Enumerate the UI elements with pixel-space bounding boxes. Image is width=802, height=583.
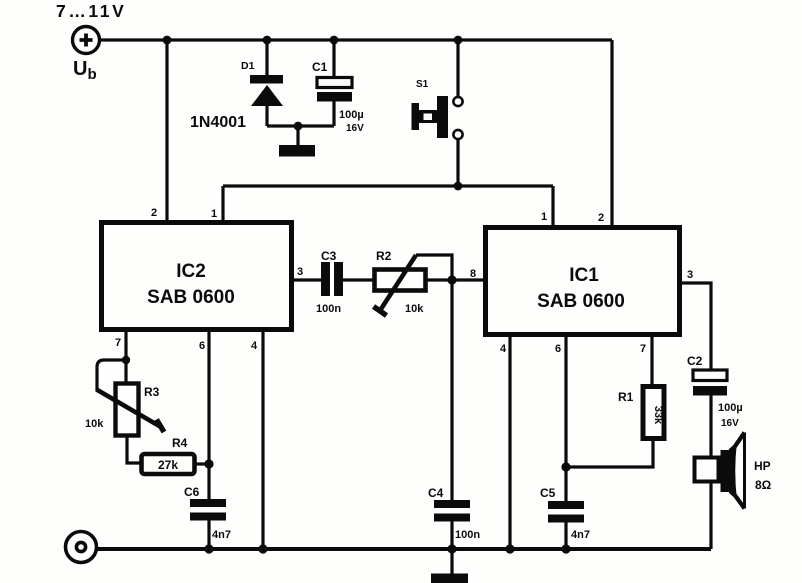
switch S1 pushbutton — [412, 96, 463, 139]
svg-text:Ub: Ub — [73, 58, 97, 83]
junction rail C5 — [561, 544, 570, 553]
junction rail C4 — [447, 544, 456, 553]
capacitor C1 electrolytic — [317, 78, 352, 102]
wire C5 to bottom rail — [564, 521, 567, 549]
capacitor C3 — [321, 262, 343, 296]
junction rail C6 — [204, 544, 213, 553]
svg-text:16V: 16V — [346, 123, 364, 134]
wire C6 to bottom rail — [207, 520, 210, 549]
svg-text:4n7: 4n7 — [571, 529, 590, 541]
junction R4 pin6 — [204, 459, 213, 468]
wire C4 to bottom rail — [450, 521, 453, 549]
wire IC1 pin 7 to R1 — [650, 336, 653, 385]
wire bottom rail (0 V) — [97, 547, 711, 551]
wire R4 to pin6 line — [196, 462, 209, 465]
junction IC2 pin7 loop — [122, 356, 130, 364]
wire R2 wiper link — [416, 255, 452, 280]
junction node A R2 output — [447, 275, 456, 284]
wire R2 to IC1 pin 8 — [427, 278, 484, 281]
junction R1 pin6-IC1 — [561, 462, 570, 471]
capacitor C5 4n7 — [548, 501, 584, 523]
svg-text:100n: 100n — [316, 303, 341, 315]
svg-text:IC1: IC1 — [569, 265, 599, 286]
svg-text:1N4001: 1N4001 — [190, 114, 246, 131]
svg-text:D1: D1 — [241, 60, 255, 72]
wire rail to S1 top contact — [456, 40, 459, 97]
wire IC1 pin 4 to bottom rail — [508, 336, 511, 549]
op-amp IC2 SAB 0600 box — [102, 223, 292, 330]
svg-text:6: 6 — [199, 340, 205, 352]
svg-text:C5: C5 — [540, 486, 556, 500]
wire D1 to C1 bottom junction — [267, 124, 334, 127]
svg-text:100µ: 100µ — [718, 402, 743, 414]
wire IC1 pin 6 to C5 — [564, 336, 567, 502]
svg-text:IC2: IC2 — [176, 261, 206, 282]
wire rail to D1 cathode — [265, 40, 268, 76]
svg-text:4: 4 — [500, 343, 507, 355]
svg-text:4: 4 — [251, 340, 258, 352]
svg-text:10k: 10k — [405, 303, 424, 315]
svg-text:R3: R3 — [144, 385, 160, 399]
wire node A down to C4 — [450, 280, 453, 501]
svg-text:7: 7 — [115, 337, 121, 349]
svg-text:C6: C6 — [184, 485, 200, 499]
svg-text:R1: R1 — [618, 390, 634, 404]
svg-text:100µ: 100µ — [339, 109, 364, 121]
wire IC2 pin 6 to C6 — [207, 331, 210, 500]
wire ground stub below rail — [450, 549, 453, 574]
wire IC2 pin 4 to bottom rail — [261, 331, 264, 549]
wire R1 bottom to pin6 net — [566, 440, 653, 467]
svg-text:16V: 16V — [721, 418, 739, 429]
svg-text:7…11V: 7…11V — [56, 1, 126, 21]
svg-text:2: 2 — [598, 212, 604, 224]
junction rail IC2pin4 — [258, 544, 267, 553]
svg-text:6: 6 — [555, 343, 561, 355]
wire IC2 pin 7 drop — [124, 331, 127, 382]
terminal Ub plus — [73, 27, 100, 54]
wire R3 wiper loop — [97, 360, 126, 391]
wire Ub rail to IC2 pin 2 — [165, 40, 168, 221]
resistor R3 10k potentiometer — [97, 384, 165, 436]
wire S1 bottom contact down — [456, 139, 459, 186]
wire IC2 pin 3 to C3 — [293, 278, 322, 281]
svg-text:C3: C3 — [321, 249, 337, 263]
svg-text:33k: 33k — [652, 406, 664, 425]
svg-text:1: 1 — [211, 208, 217, 220]
svg-text:4n7: 4n7 — [212, 529, 231, 541]
junction S1 mid wire — [454, 182, 463, 191]
wire IC2 pin 1 drop — [221, 186, 224, 221]
svg-text:8: 8 — [470, 268, 476, 280]
svg-text:C2: C2 — [687, 354, 703, 368]
svg-text:SAB 0600: SAB 0600 — [147, 287, 235, 308]
ground bottom center — [431, 574, 468, 583]
capacitor C2 electrolytic — [693, 370, 727, 396]
wire C2 to speaker — [709, 395, 712, 457]
terminal 0 — [66, 532, 97, 563]
svg-text:2: 2 — [151, 207, 157, 219]
svg-text:8Ω: 8Ω — [755, 478, 772, 492]
junction rail IC1pin4 — [505, 544, 514, 553]
svg-text:27k: 27k — [158, 458, 178, 472]
svg-text:HP: HP — [754, 459, 771, 473]
diode D1 1N4001 — [250, 75, 283, 106]
wire top supply rail — [100, 38, 612, 41]
wire IC1 pin 3 to C2 — [681, 283, 711, 370]
wire C3 to R2 — [343, 278, 373, 281]
junction rail-IC2pin2 — [163, 36, 172, 45]
svg-text:100n: 100n — [455, 529, 480, 541]
wire speaker to bottom rail — [709, 482, 712, 549]
svg-text:S1: S1 — [416, 79, 429, 90]
capacitor C6 4n7 — [190, 499, 226, 521]
wire mid horizontal net pin1-IC2 to pin1-IC1 — [223, 184, 553, 187]
capacitor C4 100n — [434, 500, 470, 522]
resistor R1 33k — [643, 387, 664, 439]
svg-text:C1: C1 — [312, 60, 328, 74]
svg-text:7: 7 — [640, 343, 646, 355]
wire D1 anode down — [265, 105, 268, 126]
svg-text:R4: R4 — [172, 436, 188, 450]
svg-text:3: 3 — [687, 269, 693, 281]
svg-text:C4: C4 — [428, 486, 444, 500]
wire C1 bottom down — [332, 100, 335, 126]
junction rail-S1 — [454, 36, 463, 45]
svg-text:3: 3 — [297, 266, 303, 278]
op-amp IC1 SAB 0600 box — [486, 228, 680, 335]
svg-text:SAB 0600: SAB 0600 — [537, 291, 625, 312]
wire top-right drop to IC1 pin 2 — [610, 40, 613, 226]
svg-text:10k: 10k — [85, 418, 104, 430]
junction rail-C1 — [330, 36, 339, 45]
wire IC1 pin 1 drop — [551, 186, 554, 226]
svg-text:R2: R2 — [376, 249, 392, 263]
junction rail-D1 — [263, 36, 272, 45]
resistor R4 27k — [142, 454, 195, 474]
wire ground stub under D1/C1 — [296, 126, 299, 146]
ground under D1/C1 — [279, 145, 315, 157]
junction D1/C1 ground — [294, 122, 303, 131]
speaker HP 8ohm — [695, 433, 745, 509]
resistor R2 10k potentiometer — [374, 255, 426, 316]
wire R3 bottom to R4 — [127, 437, 140, 463]
wire rail to C1 top — [332, 40, 335, 78]
svg-text:1: 1 — [541, 211, 547, 223]
